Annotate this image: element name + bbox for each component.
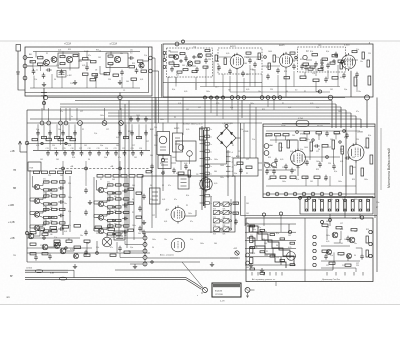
node on left rail — [25, 141, 29, 145]
node feed wire NF8 — [120, 108, 122, 121]
feed wire Fb1 — [43, 124, 45, 138]
D1 terminal c — [163, 66, 166, 69]
resistor NRv2 — [366, 250, 368, 257]
wire N w5 — [329, 214, 331, 226]
feed wire F7 — [131, 124, 133, 150]
svg-text:100к: 100к — [318, 199, 322, 201]
resistor RK8 — [74, 246, 81, 249]
pair2 right end b — [186, 280, 202, 290]
svg-text:С41: С41 — [330, 139, 333, 141]
svg-text:560: 560 — [354, 231, 357, 233]
svg-text:С27: С27 — [80, 111, 83, 113]
switch contact node S4 — [222, 96, 225, 99]
resistor R25 — [313, 79, 319, 82]
node G n2 — [326, 156, 329, 159]
svg-text:С1: С1 — [123, 90, 125, 92]
grid area wire b — [244, 196, 246, 226]
capacitor C2 — [42, 73, 46, 79]
right column node RC5 — [313, 263, 316, 266]
svg-text:Абон. громкоб.: Абон. громкоб. — [159, 254, 175, 257]
resistor RK4 — [74, 225, 81, 228]
svg-text:0,05: 0,05 — [280, 135, 283, 137]
svg-text:Л2: Л2 — [304, 91, 306, 93]
amp rail xa — [29, 170, 31, 236]
svg-text:Л2: Л2 — [206, 67, 208, 69]
resistor R15 — [215, 55, 217, 61]
node B e3 — [341, 61, 344, 64]
detector box DB — [176, 141, 196, 161]
transistor VT10 — [34, 184, 39, 189]
feed wire Fb4 — [125, 124, 127, 138]
transistor VT12 — [34, 212, 39, 217]
resistor VT13a — [44, 222, 50, 224]
svg-text:250В: 250В — [281, 126, 286, 128]
wire VT18 coll — [104, 186, 107, 188]
svg-text:100к: 100к — [78, 61, 82, 63]
resistor VT13e — [60, 222, 66, 224]
wire VT21b emit — [104, 233, 108, 235]
resistor RB2 — [284, 77, 290, 79]
resistor RK6 — [108, 228, 115, 231]
svg-text:220: 220 — [208, 59, 211, 61]
wire VT18 emit — [104, 192, 108, 194]
bus right corner 3 — [340, 107, 342, 128]
svg-text:С1 Г: С1 Г — [215, 87, 219, 89]
svg-text:0,05: 0,05 — [70, 249, 73, 251]
capacitor C9b — [195, 67, 199, 73]
contact tick t1 — [226, 151, 231, 153]
bus wire W1 — [44, 102, 45, 104]
svg-text:10к: 10к — [268, 167, 271, 169]
heater node H1 — [266, 192, 270, 196]
drop B d14 — [356, 79, 358, 92]
resistor RAF1 — [237, 162, 243, 165]
node VT10 — [49, 189, 51, 191]
svg-text:С8: С8 — [95, 70, 97, 72]
svg-text:100к: 100к — [152, 239, 156, 241]
svg-text:С41: С41 — [330, 89, 333, 91]
svg-text:0,01: 0,01 — [246, 57, 249, 59]
resistor R10b — [129, 66, 135, 68]
svg-text:0,05: 0,05 — [216, 103, 219, 105]
svg-text:560: 560 — [60, 175, 63, 177]
node K n5 — [65, 247, 67, 249]
wire VT20b coll — [104, 214, 107, 216]
matrix drop db — [280, 215, 282, 232]
node F e1 — [162, 172, 164, 174]
resistor NR5 — [338, 253, 344, 255]
node VT21b — [113, 233, 115, 235]
fan wire f1 — [117, 237, 143, 239]
wire A stub s2 — [40, 65, 42, 71]
svg-text:560: 560 — [120, 225, 123, 227]
node on block B top edge 2 — [182, 40, 185, 43]
svg-text:2,2к: 2,2к — [300, 149, 303, 151]
wire VT11 coll — [40, 197, 43, 199]
band switch wafer 3 — [320, 199, 323, 212]
svg-text:яп: яп — [7, 295, 11, 299]
right column node RC2 — [313, 242, 316, 245]
resistor R10c — [104, 73, 110, 75]
run B r4 — [292, 59, 298, 61]
svg-text:8,2к: 8,2к — [342, 199, 345, 201]
block B (tuner/IF) outer frame — [163, 44, 373, 97]
wire VT19 emit — [104, 206, 108, 208]
svg-text:1000: 1000 — [136, 115, 140, 117]
ground amp G5 — [142, 220, 146, 224]
capacitor C13c — [241, 71, 245, 77]
pair1 to pair2 join — [68, 270, 74, 277]
svg-text:＊Д1-Д4 Д2В: ＊Д1-Д4 Д2В — [222, 122, 234, 125]
resistor R7b — [83, 73, 89, 75]
svg-text:2,2к: 2,2к — [70, 83, 73, 85]
svg-text:2,2к: 2,2к — [330, 255, 333, 257]
wire under block B 2 — [195, 83, 197, 90]
svg-text:С27: С27 — [132, 145, 135, 147]
capacitor VT18 — [122, 189, 128, 193]
capacitor CA4 — [138, 206, 142, 212]
resistor VT12a — [44, 208, 50, 210]
svg-text:С24: С24 — [193, 47, 196, 49]
svg-text:С24: С24 — [139, 148, 142, 150]
RB1 inner bars — [152, 192, 158, 200]
terminal tick bottom r1 — [326, 272, 328, 276]
svg-text:100к: 100к — [68, 197, 72, 199]
resistor R10g — [141, 70, 147, 72]
capacitor VT13 — [58, 227, 64, 231]
svg-text:Зч ПВ,Г 465кГц нб ск: Зч ПВ,Г 465кГц нб ск — [183, 124, 203, 126]
D1 terminal a — [163, 52, 166, 55]
mains lead pair2 a — [25, 277, 186, 279]
svg-text:10к: 10к — [108, 185, 111, 187]
svg-text:0,05: 0,05 — [214, 183, 217, 185]
capacitor CF3 — [150, 164, 154, 170]
wire G h3 — [266, 169, 296, 171]
capacitor VT21b — [122, 230, 128, 234]
rectifier right terminal — [245, 288, 250, 293]
pushbutton switch P2K-6 — [223, 219, 232, 223]
resistor VT18b — [116, 184, 122, 186]
drop B d4 — [213, 61, 215, 87]
coupling c1-3 — [30, 206, 46, 215]
selector contact k6 — [200, 165, 210, 168]
resistor VT12b — [52, 208, 58, 210]
capacitor C17b — [355, 72, 359, 78]
coupling c2-2 — [94, 209, 110, 218]
pushbutton switch P2K-8 — [223, 227, 232, 231]
resistor R24 — [300, 76, 306, 79]
IF transformer T1 core — [159, 136, 167, 144]
mains plug lens P1 — [35, 270, 42, 273]
svg-text:о1: о1 — [232, 152, 234, 154]
wire A bottom rail — [30, 87, 140, 89]
svg-text:Л2: Л2 — [82, 129, 84, 131]
bus wire y107 — [60, 106, 341, 108]
resistor NR7 — [345, 264, 351, 266]
resistor R10 — [138, 60, 144, 62]
wire VT11 base — [33, 200, 35, 202]
wire B w0b — [167, 77, 169, 83]
svg-text:220: 220 — [96, 233, 99, 235]
resistor VT11e — [60, 195, 66, 197]
bridge top node — [225, 125, 228, 128]
resistor RF2 — [188, 170, 191, 177]
svg-text:47к: 47к — [110, 247, 113, 249]
resistor RK9 — [84, 240, 90, 242]
matrix resistor MR12 — [260, 272, 265, 274]
capacitor C8 — [120, 70, 124, 76]
svg-text:С41: С41 — [40, 159, 43, 161]
resistor RL2 — [46, 139, 52, 141]
capacitor CB3 — [320, 64, 324, 70]
wire G v4 — [341, 154, 343, 176]
node G e1 — [312, 139, 314, 141]
wire VT20b r2 — [114, 212, 116, 214]
node rail143 a — [41, 142, 43, 144]
capacitor C8b — [94, 74, 98, 80]
resistor near grid 2 — [233, 212, 239, 214]
resistor NR4 — [322, 250, 328, 252]
svg-text:6С2: 6С2 — [176, 75, 179, 77]
svg-text:100к: 100к — [268, 145, 272, 147]
agc feed 3 — [119, 161, 121, 178]
node C1 BF — [118, 95, 122, 99]
wire VT13 r2 — [50, 222, 52, 224]
svg-text:о1: о1 — [232, 176, 234, 178]
matrix step s6 — [288, 224, 290, 232]
capacitor VT10 — [58, 186, 64, 190]
svg-text:100к: 100к — [338, 111, 342, 113]
svg-text:С27: С27 — [120, 231, 123, 233]
svg-text:100к: 100к — [364, 179, 368, 181]
rectifier right stub — [250, 289, 255, 291]
wire center w8 — [227, 176, 229, 196]
run B r5 — [346, 59, 358, 61]
svg-text:С41: С41 — [98, 229, 101, 231]
drop B d9 — [277, 75, 279, 97]
resistor RK14 — [42, 233, 48, 235]
oscillator sub-box — [58, 53, 79, 68]
matrix rail m5 — [245, 256, 296, 258]
long right vertical rail — [376, 98, 378, 273]
svg-text:8,2к: 8,2к — [230, 107, 233, 109]
contact tick t5 — [226, 170, 231, 172]
node under T1 — [161, 158, 164, 161]
terminal tick bottom b2 — [257, 272, 259, 276]
resistor VT10b — [52, 181, 58, 183]
resistor VT21ba — [108, 225, 114, 227]
resistor VT12e — [60, 208, 66, 210]
band switch wafer 7 — [351, 199, 354, 212]
matrix step s3 — [264, 240, 266, 248]
switch contact node S10 — [272, 96, 276, 100]
svg-text:3,3: 3,3 — [130, 53, 132, 55]
svg-text:1000: 1000 — [172, 157, 176, 159]
svg-text:2,2к: 2,2к — [34, 79, 37, 81]
inter-block wire ib2 — [152, 71, 159, 123]
svg-text:Л2: Л2 — [246, 173, 248, 175]
band switch drum frame — [300, 197, 373, 215]
svg-text:100к: 100к — [188, 213, 192, 215]
matrix step s2 — [256, 232, 258, 240]
T2 winding marks — [175, 138, 180, 144]
wire G w3 — [297, 165, 299, 176]
resistor R10d — [113, 74, 119, 76]
resistor R4 — [60, 63, 65, 65]
wire F h1 — [171, 162, 176, 164]
rectifier title band — [213, 284, 240, 287]
svg-text:С27: С27 — [146, 141, 149, 143]
svg-text:30: 30 — [276, 245, 278, 247]
wire VT18 r2 — [114, 184, 116, 186]
capacitor C14b — [292, 64, 296, 70]
svg-text:4,7к: 4,7к — [107, 209, 110, 211]
svg-text:0,05: 0,05 — [170, 55, 173, 57]
svg-text:560: 560 — [116, 145, 119, 147]
trimmer capacitor CT3 — [63, 150, 67, 156]
trimmer capacitor CT4 — [71, 150, 75, 156]
matrix resistor MR6 — [250, 247, 255, 249]
resistor VT21bd — [116, 233, 122, 235]
svg-text:100к: 100к — [296, 167, 300, 169]
transistor VT3 — [66, 56, 72, 62]
trimmer capacitor CT2 — [55, 150, 59, 156]
node feed wire NF3 — [60, 108, 62, 121]
GB ticks — [181, 179, 187, 186]
resistor NR6 — [329, 262, 335, 264]
svg-text:+1,2В: +1,2В — [8, 221, 15, 224]
terminal column node T5 — [143, 262, 147, 266]
capacitor VT11 — [58, 200, 64, 204]
coupling c1-2 — [30, 192, 46, 201]
svg-text:Л2: Л2 — [162, 185, 164, 187]
heater node H8 — [329, 192, 333, 196]
wire center w1 — [162, 123, 164, 132]
resistor RK16 — [54, 240, 60, 242]
svg-text:С41: С41 — [112, 193, 115, 195]
svg-text:0,01: 0,01 — [178, 103, 181, 105]
diode pair D5 — [264, 162, 277, 168]
terminal tick bottom r4 — [353, 272, 355, 276]
wire G v6 — [285, 136, 287, 140]
node VT18 — [113, 192, 115, 194]
svg-text:С41: С41 — [110, 65, 113, 67]
svg-text:560: 560 — [150, 155, 153, 157]
IF transformer T2 can — [173, 133, 183, 152]
resistor R2 — [38, 63, 44, 65]
svg-text:С27: С27 — [238, 151, 241, 153]
resistor RG13 — [314, 176, 320, 179]
svg-text:10к: 10к — [164, 239, 167, 241]
fan wire f4 — [120, 253, 143, 258]
node VT19 — [113, 206, 115, 208]
svg-text:47к: 47к — [330, 199, 333, 201]
svg-text:+10В: +10В — [8, 204, 14, 207]
svg-text:2,2к: 2,2к — [144, 55, 147, 57]
svg-text:0,05: 0,05 — [82, 65, 85, 67]
wire X1 to C1 — [27, 57, 33, 59]
transistor VT20 — [28, 233, 34, 239]
coupling capacitor CC5 — [118, 130, 122, 136]
wire A stub s5 — [95, 80, 97, 88]
svg-text:0,01: 0,01 — [72, 157, 75, 159]
ground N G1 — [249, 263, 253, 267]
resistor R1 — [30, 61, 36, 63]
capacitor CG10 — [265, 169, 269, 175]
capacitor CB1 — [266, 74, 270, 80]
fan wire f3 — [128, 250, 143, 252]
svg-text:560: 560 — [326, 227, 329, 229]
svg-text:560: 560 — [326, 221, 329, 223]
resistor R12 — [180, 53, 185, 55]
svg-text:560: 560 — [126, 81, 129, 83]
wire block A output down — [119, 93, 121, 96]
resistor RG20 — [304, 132, 310, 134]
ground K G8 — [210, 262, 214, 266]
resistor VT11d — [52, 203, 58, 205]
feed wire Fb3 — [68, 124, 70, 138]
wire VT18 base — [97, 189, 99, 191]
svg-text:30: 30 — [152, 247, 154, 249]
amp rail xc — [62, 174, 64, 235]
right rail link — [374, 196, 376, 218]
node feed wire NF6 — [76, 108, 78, 121]
svg-text:127/220: 127/220 — [26, 268, 32, 270]
svg-text:6К4П: 6К4П — [279, 45, 285, 47]
svg-text:0,01: 0,01 — [64, 231, 67, 233]
node K n4 — [43, 237, 45, 239]
svg-text:10к: 10к — [258, 91, 261, 93]
switch contact node S3 — [216, 96, 219, 99]
svg-text:8,2к: 8,2к — [296, 179, 299, 181]
svg-text:R15: R15 — [120, 185, 123, 187]
selector ladder rail c — [207, 128, 209, 188]
svg-text:10к: 10к — [80, 235, 83, 237]
svg-text:R15: R15 — [268, 157, 271, 159]
svg-text:С27: С27 — [306, 199, 309, 201]
svg-text:2,2к: 2,2к — [304, 163, 307, 165]
svg-text:R15: R15 — [68, 49, 71, 51]
capacitor C18 — [324, 77, 328, 83]
svg-text:47к: 47к — [366, 199, 369, 201]
wire center w2 — [176, 123, 178, 134]
svg-text:0,01: 0,01 — [164, 221, 167, 223]
resistor RB5 — [352, 51, 357, 53]
svg-text:560: 560 — [214, 171, 217, 173]
vacuum tube L6 6N2P — [291, 149, 306, 168]
svg-text:10к: 10к — [358, 91, 361, 93]
svg-text:10к: 10к — [64, 203, 67, 205]
capacitor CG9 — [345, 156, 351, 160]
terminal tick bottom r3 — [344, 272, 346, 276]
main left rail — [26, 110, 28, 262]
junction big node at 367 — [365, 95, 370, 100]
wire G w2 — [355, 128, 357, 145]
right-mid outer frame top — [241, 122, 263, 124]
drop B d8 — [254, 69, 256, 87]
wire N v4 — [347, 255, 349, 261]
fan wire f2 — [125, 241, 143, 245]
svg-text:10к: 10к — [58, 129, 61, 131]
wire G v8 — [317, 179, 319, 186]
contact tick t2 — [226, 156, 231, 158]
switch contact node S8 — [260, 96, 264, 100]
ladder resistor LB4 — [121, 175, 127, 178]
svg-text:Др2: Др2 — [306, 51, 309, 53]
heater node H7 — [320, 192, 324, 196]
svg-text:560: 560 — [250, 235, 253, 237]
wire under block B 7 — [222, 74, 224, 97]
